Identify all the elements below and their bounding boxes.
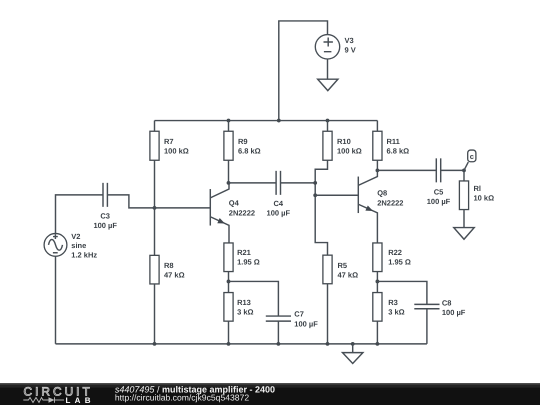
svg-text:http://circuitlab.com/cjk9c5q5: http://circuitlab.com/cjk9c5q543872: [115, 392, 249, 402]
wire bias node to Q8 base: [315, 194, 358, 196]
resistor R8: [150, 208, 185, 284]
resistor R11: [373, 121, 409, 161]
voltage source V2: [44, 232, 97, 260]
node bias base: [313, 193, 317, 197]
capacitor C5: [427, 158, 451, 206]
svg-text:6.8 kΩ: 6.8 kΩ: [387, 146, 410, 155]
wire ground rail: [56, 343, 427, 345]
svg-text:R9: R9: [238, 137, 248, 146]
wire R21 bottom to R13: [228, 272, 230, 293]
svg-text:2N2222: 2N2222: [377, 199, 403, 208]
node R9 top: [227, 119, 231, 123]
node flag c: [468, 150, 476, 162]
node V3 branch: [277, 119, 281, 123]
svg-text:V3: V3: [345, 36, 354, 45]
wire junction to C7: [229, 281, 279, 316]
voltage source V3: [315, 35, 355, 59]
svg-text:100 µF: 100 µF: [294, 319, 318, 328]
svg-text:1.95 Ω: 1.95 Ω: [237, 257, 260, 266]
resistor R7: [150, 121, 189, 161]
wire C5 to output node: [441, 169, 464, 171]
wire V2 bottom: [55, 256, 57, 344]
svg-text:R22: R22: [388, 248, 402, 257]
svg-text:C3: C3: [100, 212, 110, 221]
wire rail to ground symbol: [352, 344, 354, 353]
ground (below Rl): [454, 228, 474, 240]
wire R10 bottom to bias column: [315, 160, 327, 255]
node Q8 collector: [376, 168, 380, 172]
wire R5 bottom to ground rail: [327, 284, 329, 344]
capacitor C3: [93, 183, 117, 230]
wire R11 bottom to Q8 collector node: [376, 160, 378, 170]
transistor Q8: [358, 170, 403, 243]
wire V3 to ground: [327, 59, 329, 79]
wire top supply rail: [155, 120, 378, 122]
wire C7 bottom to ground rail: [277, 321, 279, 344]
svg-text:Q4: Q4: [229, 199, 240, 208]
svg-text:R8: R8: [164, 261, 174, 270]
svg-text:100 µF: 100 µF: [442, 308, 466, 317]
node base junction: [153, 206, 157, 210]
resistor R21: [224, 243, 260, 272]
footer bar: [0, 383, 540, 405]
svg-text:100 µF: 100 µF: [93, 221, 117, 230]
resistor R9: [224, 121, 261, 161]
resistor R13: [224, 293, 254, 322]
svg-text:R7: R7: [164, 137, 174, 146]
node output: [462, 168, 466, 172]
svg-text:C4: C4: [274, 199, 284, 208]
ground (below V3): [318, 79, 338, 90]
wire Q4 collector to C4: [229, 182, 276, 184]
node rail ground: [351, 342, 355, 346]
svg-text:c: c: [470, 152, 474, 161]
node R10 top: [326, 119, 330, 123]
resistor R3: [373, 293, 405, 322]
svg-text:C7: C7: [294, 310, 304, 319]
node bias C4: [313, 181, 317, 185]
node rail R8: [153, 342, 157, 346]
svg-text:R11: R11: [387, 137, 400, 146]
node R21/R13 junction: [227, 280, 231, 284]
svg-text:100 kΩ: 100 kΩ: [164, 146, 189, 155]
svg-text:2N2222: 2N2222: [229, 209, 255, 218]
svg-text:47 kΩ: 47 kΩ: [164, 271, 185, 280]
resistor R10: [323, 121, 362, 161]
logo doodle resistor-diode: [23, 397, 64, 402]
svg-text:100 µF: 100 µF: [427, 197, 451, 206]
wire R13 bottom to ground rail: [228, 321, 230, 344]
svg-text:R5: R5: [338, 261, 348, 270]
wire C4 to bias node: [281, 182, 316, 184]
wire Rl bottom to ground: [463, 210, 465, 228]
svg-text:6.8 kΩ: 6.8 kΩ: [238, 146, 261, 155]
node rail R3: [376, 342, 380, 346]
resistor R22: [373, 243, 411, 272]
wire Q8 collector to C5: [377, 169, 436, 171]
wire C3 to Q4 base: [107, 195, 210, 208]
wire R9 bottom to Q4 collector node: [228, 160, 230, 183]
svg-text:R10: R10: [337, 137, 351, 146]
resistor Rl: [459, 170, 494, 209]
node Q4 collector: [227, 181, 231, 185]
svg-text:10 kΩ: 10 kΩ: [474, 194, 495, 203]
svg-text:LAB: LAB: [66, 396, 95, 405]
svg-text:1.95 Ω: 1.95 Ω: [388, 257, 411, 266]
svg-text:V2: V2: [71, 232, 80, 241]
node rail C7: [277, 342, 281, 346]
svg-text:R21: R21: [237, 248, 251, 257]
capacitor C7: [266, 310, 318, 329]
svg-text:C5: C5: [434, 188, 444, 197]
wire V3 branch: [279, 21, 328, 121]
svg-text:3 kΩ: 3 kΩ: [388, 307, 404, 316]
wire R3 bottom to ground rail: [376, 321, 378, 344]
wire R22 bottom to R3: [376, 272, 378, 293]
wire node to flag c: [464, 162, 468, 170]
capacitor C4: [267, 171, 291, 218]
svg-text:C8: C8: [442, 298, 452, 307]
svg-text:47 kΩ: 47 kΩ: [338, 271, 359, 280]
capacitor C8: [414, 298, 466, 317]
svg-text:Rl: Rl: [474, 184, 482, 193]
node R22/R3 junction: [376, 280, 380, 284]
svg-text:1.2 kHz: 1.2 kHz: [71, 251, 97, 260]
svg-text:Q8: Q8: [377, 188, 387, 197]
svg-text:sine: sine: [71, 241, 86, 250]
svg-text:100 µF: 100 µF: [267, 208, 291, 217]
node rail R13: [227, 342, 231, 346]
svg-text:100 kΩ: 100 kΩ: [337, 146, 362, 155]
svg-text:3 kΩ: 3 kΩ: [237, 307, 253, 316]
wire R8 bottom to ground rail: [154, 284, 156, 344]
svg-text:9 V: 9 V: [345, 46, 356, 55]
resistor R5: [323, 255, 358, 284]
ground (bottom center): [343, 353, 363, 364]
svg-text:R13: R13: [237, 298, 251, 307]
wire C8 bottom to ground rail: [426, 309, 428, 344]
svg-text:R3: R3: [388, 298, 398, 307]
wire V2 top to C3: [56, 195, 103, 234]
node rail R5: [326, 342, 330, 346]
transistor Q4: [210, 183, 255, 244]
wire R7 bottom to base junction: [154, 160, 156, 208]
wire junction to C8: [377, 281, 427, 304]
